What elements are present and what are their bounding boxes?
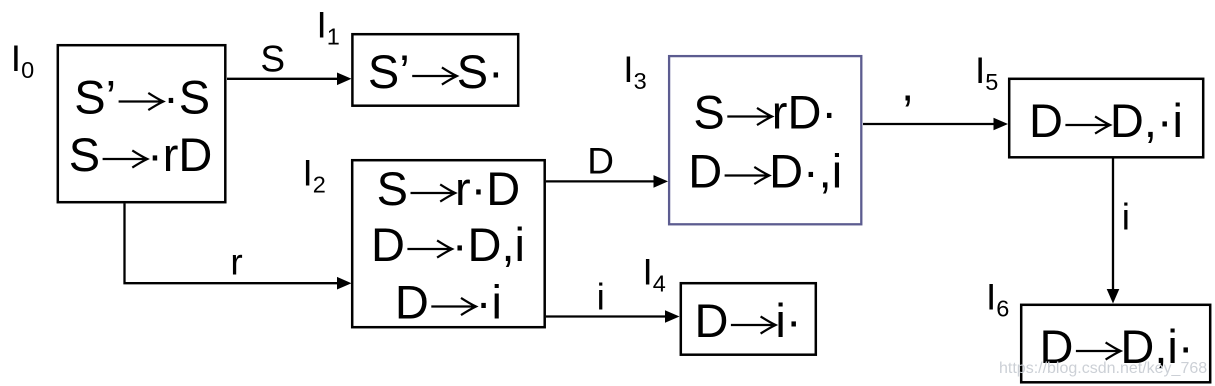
svg-text:S·: S· xyxy=(457,45,504,98)
svg-text:I5: I5 xyxy=(975,50,998,95)
label D (transition I2 to I3) xyxy=(587,141,614,182)
svg-text:S’: S’ xyxy=(368,45,410,98)
svg-text:D: D xyxy=(1029,94,1063,147)
svg-text:S: S xyxy=(377,162,408,215)
svg-text:r: r xyxy=(230,242,242,283)
svg-text:S’: S’ xyxy=(74,71,116,124)
wire I2 to I3 xyxy=(546,175,668,188)
svg-text:I6: I6 xyxy=(986,277,1009,322)
label I4 xyxy=(643,252,666,297)
svg-text:i: i xyxy=(1122,197,1130,238)
label S (transition I0 to I1) xyxy=(260,39,285,80)
svg-text:·S: ·S xyxy=(163,71,210,124)
label I3 xyxy=(623,49,646,94)
wire I5 to I6 xyxy=(1107,159,1120,304)
svg-text:I4: I4 xyxy=(643,252,666,297)
wire I0 to I1 xyxy=(227,73,352,86)
wire I0 to I2 xyxy=(125,204,352,290)
svg-text:I3: I3 xyxy=(623,49,646,94)
label comma (transition I3 to I5) xyxy=(901,59,914,111)
label I2 xyxy=(303,153,326,198)
label I6 xyxy=(986,277,1009,322)
svg-text:,: , xyxy=(901,59,914,111)
svg-text:D: D xyxy=(395,276,429,329)
label i (transition I2 to I4) xyxy=(597,277,605,318)
svg-text:D: D xyxy=(688,145,722,198)
state box I1 xyxy=(352,34,518,106)
state box I4 xyxy=(681,283,816,355)
svg-text:I0: I0 xyxy=(11,38,34,83)
svg-text:i: i xyxy=(597,277,605,318)
svg-text:S: S xyxy=(693,86,724,139)
label I0 xyxy=(11,38,34,83)
svg-text:S: S xyxy=(260,39,285,80)
label I5 xyxy=(975,50,998,95)
wire I3 to I5 xyxy=(863,118,1008,131)
svg-text:·rD: ·rD xyxy=(147,128,212,181)
state box I0 xyxy=(58,45,226,202)
svg-text:D,·i: D,·i xyxy=(1110,94,1183,147)
state box I2 xyxy=(352,160,545,328)
svg-text:I2: I2 xyxy=(303,153,326,198)
state box I3 xyxy=(669,56,861,224)
svg-text:D: D xyxy=(371,218,405,271)
svg-text:rD·: rD· xyxy=(772,86,837,139)
svg-text:i·: i· xyxy=(775,294,801,347)
svg-text:https://blog.csdn.net/key_768: https://blog.csdn.net/key_768 xyxy=(999,360,1207,377)
svg-text:D: D xyxy=(695,294,729,347)
svg-text:r·D: r·D xyxy=(455,162,520,215)
label i (transition I5 to I6) xyxy=(1122,197,1130,238)
svg-text:D: D xyxy=(587,141,614,182)
wire I2 to I4 xyxy=(546,310,680,323)
label I1 xyxy=(317,5,340,50)
svg-text:D·,i: D·,i xyxy=(769,145,842,198)
svg-text:S: S xyxy=(69,128,100,181)
watermark xyxy=(999,360,1207,377)
svg-text:I1: I1 xyxy=(317,5,340,50)
label r (transition I0 to I2) xyxy=(230,242,242,283)
state box I5 xyxy=(1009,79,1203,158)
svg-text:·D,i: ·D,i xyxy=(452,218,525,271)
svg-text:·i: ·i xyxy=(476,276,502,329)
state box I6 xyxy=(1021,305,1210,383)
